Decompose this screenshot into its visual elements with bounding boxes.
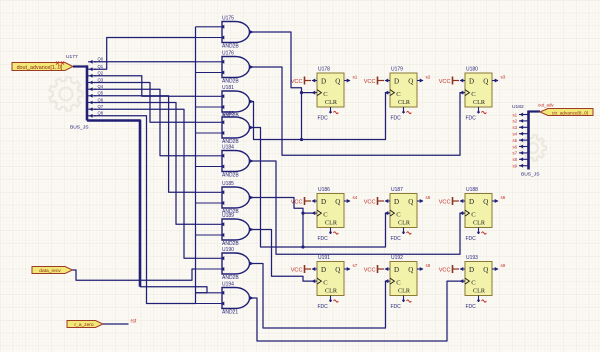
svg-text:C: C <box>396 279 401 286</box>
svg-text:s8: s8 <box>512 157 517 162</box>
svg-text:C: C <box>323 279 328 286</box>
wire U185 out to U186 C <box>250 198 313 214</box>
svg-text:dout_advance[1..0]: dout_advance[1..0] <box>17 65 63 71</box>
svg-text:VCC: VCC <box>364 268 376 274</box>
svg-text:D: D <box>394 266 399 274</box>
bus entry s2 right <box>512 119 528 124</box>
junction dot <box>301 245 304 248</box>
wire stub to gate 8 input B <box>196 267 225 271</box>
svg-text:U190: U190 <box>222 247 234 253</box>
svg-text:FDC: FDC <box>391 116 402 122</box>
wire stub to gate 2 input A <box>196 60 225 64</box>
svg-text:AND2B: AND2B <box>222 173 239 179</box>
no-ERC mark at CLR U178 <box>334 111 339 113</box>
svg-text:D: D <box>394 198 399 206</box>
AND gate U181 <box>222 91 254 112</box>
flip-flop U179 (FDC) <box>390 73 417 107</box>
pin C arrow U193 <box>460 279 466 283</box>
svg-text:U181: U181 <box>222 85 234 91</box>
svg-text:C: C <box>323 211 328 218</box>
wire stub to gate 6 input A <box>196 190 225 194</box>
no-ERC mark at CLR U179 <box>407 111 412 113</box>
svg-text:VCC: VCC <box>439 268 451 274</box>
flip-flop U186 (FDC) <box>317 194 344 228</box>
AND gate U189 <box>222 219 254 240</box>
pin CLR U188 <box>477 228 480 235</box>
svg-text:FDC: FDC <box>466 304 477 310</box>
junction dot <box>301 212 304 215</box>
pin C arrow U192 <box>385 279 391 283</box>
pin D arrow U179 <box>385 79 391 83</box>
svg-text:D: D <box>469 78 474 86</box>
svg-text:CLR: CLR <box>473 99 486 106</box>
svg-text:s2: s2 <box>426 75 431 80</box>
no-ERC mark at CLR U192 <box>407 300 412 302</box>
pin D arrow U180 <box>460 79 466 83</box>
AND gate U184 <box>222 151 254 172</box>
svg-text:AND2B: AND2B <box>222 44 239 50</box>
svg-text:C: C <box>396 211 401 218</box>
wire stub to gate 5 input B <box>196 165 225 169</box>
wire stub to gate 4 input B <box>196 131 225 135</box>
svg-text:CLR: CLR <box>398 287 411 294</box>
svg-text:s1: s1 <box>353 75 358 80</box>
bus entry Q4 <box>88 84 104 91</box>
bus entry Q7 <box>88 104 104 111</box>
bus entry Q1 <box>88 64 104 71</box>
AND gate U190 <box>222 253 254 274</box>
wire stub to gate 6 input B <box>196 201 225 205</box>
svg-text:U180: U180 <box>466 67 478 73</box>
svg-text:CLR: CLR <box>398 99 411 106</box>
svg-text:data_recv: data_recv <box>39 268 61 274</box>
wire Q4 staircase to gate input <box>94 89 196 156</box>
svg-text:FDC: FDC <box>391 304 402 310</box>
no-ERC mark at CLR U188 <box>482 232 487 234</box>
bus entry s6 right <box>512 144 528 149</box>
svg-text:VCC: VCC <box>291 79 303 85</box>
svg-text:Q1: Q1 <box>98 64 104 69</box>
svg-text:s2: s2 <box>512 119 517 124</box>
svg-text:VCC: VCC <box>439 200 451 206</box>
svg-text:Q: Q <box>335 266 340 274</box>
AND gate U183 <box>222 117 254 138</box>
wire Q2 staircase to gate input <box>94 76 196 97</box>
port r_a_zero <box>67 321 103 329</box>
svg-text:Q5: Q5 <box>98 91 104 96</box>
wire stub to gate 7 input B <box>196 233 225 237</box>
pin Q output U193 <box>492 267 499 271</box>
wire r_a_zero <box>103 323 129 325</box>
AND gate U176 <box>222 57 254 78</box>
power VCC for U180 <box>439 77 459 86</box>
pin C arrow U188 <box>460 211 466 215</box>
pin Q output U191 <box>344 267 351 271</box>
svg-text:CLR: CLR <box>398 219 411 226</box>
pin D arrow U187 <box>385 199 391 203</box>
no-ERC mark at CLR U186 <box>334 232 339 234</box>
wire U194 out to U193 C <box>250 281 464 341</box>
pin D arrow U188 <box>460 199 466 203</box>
wire U183 out to U187 C <box>250 128 389 248</box>
svg-text:U177: U177 <box>66 54 78 60</box>
wire U184 out to U188 C <box>250 161 464 254</box>
svg-text:VCC: VCC <box>291 200 303 206</box>
power VCC for U191 <box>291 265 311 274</box>
wire stub to gate 4 input A <box>196 120 225 124</box>
wire U176 out to U180 C <box>250 67 464 155</box>
svg-text:FDC: FDC <box>391 236 402 242</box>
wire stub to gate 7 input A <box>196 222 225 226</box>
power VCC for U186 <box>291 197 311 206</box>
svg-text:s5: s5 <box>512 138 517 143</box>
svg-text:out_adv: out_adv <box>538 103 554 108</box>
pin D arrow U191 <box>312 267 318 271</box>
svg-text:FDC: FDC <box>318 304 329 310</box>
pin CLR U186 <box>329 228 332 235</box>
svg-text:U178: U178 <box>318 67 330 73</box>
bus entry s9 right <box>512 164 528 169</box>
svg-text:U175: U175 <box>222 15 234 21</box>
pin D arrow U192 <box>385 267 391 271</box>
bus BUS_JS left vertical <box>73 65 88 120</box>
svg-text:U176: U176 <box>222 50 234 56</box>
svg-text:CLR: CLR <box>325 219 338 226</box>
wire Q6 staircase to gate input <box>94 103 196 225</box>
svg-text:s5: s5 <box>426 195 431 200</box>
svg-text:C: C <box>471 91 476 98</box>
svg-text:s8: s8 <box>426 263 431 268</box>
svg-text:D: D <box>394 78 399 86</box>
junction dot <box>300 91 303 94</box>
port dout_advance[1..0] <box>12 63 73 72</box>
svg-text:D: D <box>321 78 326 86</box>
svg-text:FDC: FDC <box>466 116 477 122</box>
flip-flop U191 (FDC) <box>317 262 344 296</box>
svg-text:Q0: Q0 <box>98 57 104 62</box>
wire stub to gate 1 input B <box>196 36 225 40</box>
bus entry Q3 <box>88 77 104 84</box>
svg-text:VCC: VCC <box>364 200 376 206</box>
no-ERC mark at CLR U193 <box>482 300 487 302</box>
watermark gear left <box>49 77 82 111</box>
svg-text:U189: U189 <box>222 213 234 219</box>
wire bus to U194 input 1 <box>140 287 207 293</box>
svg-text:U193: U193 <box>466 255 478 261</box>
svg-text:FDC: FDC <box>318 116 329 122</box>
pin C arrow U187 <box>385 211 391 215</box>
wire stub to gate 2 input B <box>196 71 225 75</box>
pin CLR U178 <box>329 107 332 114</box>
svg-text:U182: U182 <box>512 104 524 110</box>
svg-text:s3: s3 <box>512 125 517 130</box>
power VCC for U188 <box>439 197 459 206</box>
wire Q0 to AND column <box>94 61 196 63</box>
svg-text:Q8: Q8 <box>98 111 104 116</box>
svg-text:VCC: VCC <box>291 268 303 274</box>
svg-text:CLR: CLR <box>473 219 486 226</box>
bus entry s4 right <box>512 132 528 137</box>
wire input trunk vertical <box>195 27 197 304</box>
svg-text:Q: Q <box>483 266 488 274</box>
wire stub to gate 5 input A <box>196 154 225 158</box>
power VCC for U178 <box>291 77 311 86</box>
svg-text:FDC: FDC <box>318 236 329 242</box>
bus entry Q5 <box>88 91 104 98</box>
wire Q3 staircase to gate input <box>94 83 196 123</box>
svg-text:s6: s6 <box>512 144 517 149</box>
wire Q1 to U175 input <box>94 38 196 70</box>
wire U181 out to U179 C <box>250 93 389 140</box>
svg-text:AND2B: AND2B <box>222 275 239 281</box>
bus entry Q6 <box>88 97 104 104</box>
flip-flop U180 (FDC) <box>465 73 492 107</box>
bus entry Q8 <box>88 111 104 118</box>
svg-text:U191: U191 <box>318 255 330 261</box>
wire Q8 staircase to U194 input <box>94 116 196 304</box>
wire stub to gate 8 input A <box>196 256 225 260</box>
svg-text:Q: Q <box>408 198 413 206</box>
svg-text:ctr_advance[8..0]: ctr_advance[8..0] <box>552 110 588 115</box>
svg-text:rst: rst <box>131 319 137 325</box>
svg-text:D: D <box>469 266 474 274</box>
svg-text:AND21: AND21 <box>222 310 238 316</box>
svg-text:s7: s7 <box>353 263 358 268</box>
svg-text:C: C <box>396 91 401 98</box>
svg-text:U188: U188 <box>466 187 478 193</box>
pin C arrow U178 <box>312 91 318 95</box>
pin C arrow U179 <box>385 91 391 95</box>
power VCC for U192 <box>364 265 384 274</box>
svg-text:s7: s7 <box>512 151 517 156</box>
svg-text:s4: s4 <box>512 132 517 137</box>
bus entry Q0 <box>88 57 104 64</box>
svg-text:U179: U179 <box>391 67 403 73</box>
pin D arrow U178 <box>312 79 318 83</box>
wire U189 out to U191 C <box>250 230 313 282</box>
svg-text:s3: s3 <box>501 75 506 80</box>
pin CLR U187 <box>402 228 405 235</box>
svg-text:C: C <box>471 211 476 218</box>
watermark gear right <box>520 135 546 161</box>
pin C arrow U180 <box>460 91 466 95</box>
flip-flop U188 (FDC) <box>465 194 492 228</box>
pin C arrow U191 <box>312 279 318 283</box>
no-ERC mark at CLR U187 <box>407 232 412 234</box>
svg-text:Q7: Q7 <box>98 104 104 109</box>
wire U190 out to U192 C <box>250 264 389 329</box>
svg-text:U185: U185 <box>222 181 234 187</box>
pin CLR U191 <box>329 296 332 303</box>
svg-text:s9: s9 <box>512 164 517 169</box>
wire stub to gate 9 input A <box>196 291 225 295</box>
AND gate U175 <box>222 22 254 43</box>
svg-text:Q2: Q2 <box>98 71 104 76</box>
wire stub to gate 9 input B <box>196 302 225 306</box>
pin Q output U186 <box>344 199 351 203</box>
bus entry s8 right <box>512 157 528 162</box>
svg-text:U192: U192 <box>391 255 403 261</box>
wire stub to gate 3 input A <box>196 94 225 98</box>
svg-text:Q6: Q6 <box>98 97 104 102</box>
bus entry s5 right <box>512 138 528 143</box>
no-ERC mark at CLR U180 <box>482 111 487 113</box>
pin D arrow U193 <box>460 267 466 271</box>
power VCC for U187 <box>364 197 384 206</box>
junction dot <box>300 138 303 141</box>
wire stub to gate 3 input B <box>196 105 225 109</box>
svg-text:C: C <box>471 279 476 286</box>
svg-text:U183: U183 <box>222 111 234 117</box>
AND gate U194 <box>222 288 254 309</box>
svg-text:BUS_JS: BUS_JS <box>70 125 89 131</box>
pin CLR U192 <box>402 296 405 303</box>
svg-text:VCC: VCC <box>439 79 451 85</box>
bus BUS_JS right vertical <box>529 111 541 170</box>
port data_recv <box>32 267 73 274</box>
flip-flop U192 (FDC) <box>390 262 417 296</box>
svg-text:Q: Q <box>335 78 340 86</box>
power VCC for U179 <box>364 77 384 86</box>
svg-text:CLR: CLR <box>473 287 486 294</box>
wire branch U186 C to row2 chain <box>302 213 304 247</box>
svg-text:Q: Q <box>408 78 413 86</box>
svg-text:Q: Q <box>335 198 340 206</box>
pin D arrow U186 <box>312 199 318 203</box>
svg-text:D: D <box>321 198 326 206</box>
pin Q output U180 <box>492 79 499 83</box>
svg-text:U184: U184 <box>222 144 234 150</box>
svg-text:FDC: FDC <box>466 236 477 242</box>
flip-flop U187 (FDC) <box>390 194 417 228</box>
AND gate U185 <box>222 187 254 208</box>
power VCC for U193 <box>439 265 459 274</box>
bus entry s3 right <box>512 125 528 130</box>
no-ERC marks at port pin <box>56 62 64 65</box>
port ctr_advance[8..0] <box>540 109 593 116</box>
pin Q output U179 <box>417 79 424 83</box>
pin CLR U193 <box>477 296 480 303</box>
svg-text:r_a_zero: r_a_zero <box>74 322 94 328</box>
bus entry Q2 <box>88 71 104 78</box>
svg-text:U187: U187 <box>391 187 403 193</box>
svg-text:Q4: Q4 <box>98 84 104 89</box>
svg-text:s4: s4 <box>353 195 358 200</box>
pin CLR U179 <box>402 107 405 114</box>
flip-flop U178 (FDC) <box>317 73 344 107</box>
pin Q output U192 <box>417 267 424 271</box>
pin Q output U187 <box>417 199 424 203</box>
svg-text:CLR: CLR <box>325 287 338 294</box>
pin Q output U188 <box>492 199 499 203</box>
pin C arrow U186 <box>312 211 318 215</box>
svg-text:D: D <box>321 266 326 274</box>
svg-text:CLR: CLR <box>325 99 338 106</box>
wire stub to gate 1 input A <box>196 25 225 29</box>
pin CLR U180 <box>477 107 480 114</box>
svg-text:s1: s1 <box>512 112 517 117</box>
svg-text:Q3: Q3 <box>98 77 104 82</box>
svg-text:Q: Q <box>483 78 488 86</box>
svg-text:AND2B: AND2B <box>222 79 239 85</box>
svg-text:C: C <box>323 91 328 98</box>
flip-flop U193 (FDC) <box>465 262 492 296</box>
wire Q7 staircase to gate input <box>94 109 196 258</box>
svg-text:BUS_JS: BUS_JS <box>521 172 540 178</box>
wire data_recv to U190 input <box>73 269 196 280</box>
wire U175 out to U178 C <box>250 32 313 93</box>
svg-text:VCC: VCC <box>364 79 376 85</box>
svg-text:s9: s9 <box>501 263 506 268</box>
svg-text:U194: U194 <box>222 281 234 287</box>
svg-text:s6: s6 <box>501 195 506 200</box>
no-ERC mark at CLR U191 <box>334 300 339 302</box>
wire branch U178 C to row1 chain <box>301 93 303 140</box>
wire Q5 staircase to gate input <box>94 96 196 193</box>
bus segment bottom L <box>87 121 140 287</box>
svg-text:Q: Q <box>408 266 413 274</box>
svg-text:U186: U186 <box>318 187 330 193</box>
svg-text:Q: Q <box>483 198 488 206</box>
pin Q output U178 <box>344 79 351 83</box>
bus entry s1 right <box>512 112 528 117</box>
bus entry s7 right <box>512 151 528 156</box>
svg-text:D: D <box>469 198 474 206</box>
